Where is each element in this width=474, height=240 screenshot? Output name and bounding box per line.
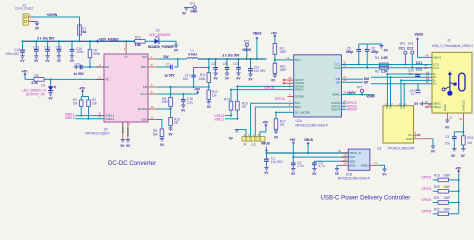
- svg-text:VBUS: VBUS: [304, 138, 313, 142]
- svg-text:VBUS: VBUS: [242, 48, 251, 52]
- J1 pin CC2 B5: [424, 66, 439, 70]
- capacitor C8 10u: [211, 58, 218, 81]
- svg-text:USB-C Power Delivery Controlle: USB-C Power Delivery Controller: [321, 195, 411, 202]
- wire VBUS rail to U1B: [266, 152, 348, 154]
- capacitor C5 390p CC1 filter: [346, 44, 361, 66]
- U2 pin FB: [143, 83, 157, 89]
- svg-text:TPD4E1U06DCKR: TPD4E1U06DCKR: [387, 146, 415, 150]
- svg-text:CC2: CC2: [416, 67, 423, 71]
- output bus VBUS rail top: [198, 58, 267, 60]
- capacitor C17 22u feedforward: [183, 67, 210, 89]
- svg-text:4.7uH: 4.7uH: [188, 53, 197, 57]
- wire PG line to U2: [50, 78, 104, 80]
- resistor R2 10k VSEL2 pullup: [87, 97, 98, 120]
- hier label VSEL2 right + wire: [214, 114, 231, 118]
- power label VBUS on output: [253, 32, 262, 60]
- svg-text:VCC: VCC: [141, 92, 148, 96]
- svg-text:MP2491CGQB-P: MP2491CGQB-P: [85, 131, 109, 135]
- U1A pin GPIO8 no-connect: [283, 79, 304, 85]
- wire J4 pin4 +5V: [260, 121, 269, 137]
- hier label GPIO3 pullup row: [422, 185, 459, 193]
- J1 pin VBUS A4 + power VBUS: [414, 33, 441, 60]
- wire J4 pin1 ground: [229, 130, 246, 141]
- capacitor C4 10n shield: [445, 132, 457, 158]
- svg-text:GND: GND: [406, 137, 414, 141]
- svg-text:+5V: +5V: [262, 121, 269, 125]
- hier label GPIO5 pullup row: [422, 208, 459, 216]
- svg-text:BST: BST: [141, 65, 147, 69]
- svg-text:GPIO4: GPIO4: [331, 108, 341, 112]
- svg-text:PGND: PGND: [126, 126, 130, 136]
- U2 pin PG: [96, 75, 110, 81]
- J1 GND pin bottom + ground: [443, 104, 453, 130]
- svg-text:VBUS: VBUS: [253, 32, 262, 36]
- svg-text:0R: 0R: [242, 105, 247, 109]
- svg-text:USB_C_Receptacle_USB2.0: USB_C_Receptacle_USB2.0: [432, 44, 473, 48]
- connector J4 I2C header: [242, 133, 265, 146]
- capacitor C9 10u: [223, 58, 230, 81]
- hier label VSEL2 + wire: [65, 116, 104, 120]
- wire VBUS_P stub: [341, 152, 343, 154]
- U1A pin GPIO2 + label: [331, 99, 357, 105]
- svg-text:D2-: D2-: [402, 104, 406, 109]
- U1A pin GPIO3 + label: [331, 102, 357, 108]
- svg-text:2.2u: 2.2u: [297, 164, 303, 168]
- resistor R1 10k VSEL1 pullup: [73, 97, 83, 117]
- svg-text:D3: D3: [156, 28, 160, 32]
- svg-text:J4: J4: [243, 142, 247, 146]
- resistor R12 11k feedback lower: [207, 87, 218, 109]
- svg-text:C13: C13: [33, 45, 39, 49]
- U2 pin ILIM: [141, 115, 157, 121]
- svg-text:R23: R23: [467, 136, 473, 140]
- svg-text:C10: C10: [233, 62, 239, 66]
- svg-text:A1: A1: [449, 115, 453, 119]
- resistor R3 DNP NTC upper: [273, 44, 286, 61]
- svg-text:5A: 5A: [82, 30, 87, 34]
- ESD array U3 TPD4E1U06DCKR: [377, 106, 415, 151]
- wire SW node: [157, 55, 187, 60]
- op-amp U1B MPS5311GRE-00A3-P power unit: [338, 149, 370, 181]
- wire D- row B6: [400, 79, 432, 81]
- U1B pin VBUS_P: [338, 149, 361, 155]
- power +5V into U1B VCC: [290, 138, 297, 158]
- connector J1 USB_C_Receptacle_USB2.0: [432, 38, 473, 113]
- svg-text:C15: C15: [56, 45, 62, 49]
- resistor R11 100k feedback upper: [198, 58, 210, 88]
- svg-text:GND: GND: [190, 10, 198, 14]
- U1B pin VCC: [341, 153, 356, 159]
- wire fuse to input bus: [79, 35, 81, 41]
- J1 SHIELD pin: [459, 99, 465, 122]
- svg-text:S1: S1: [459, 117, 463, 121]
- svg-text:1n: 1n: [409, 72, 413, 76]
- power +5V VSEL pullups: [79, 86, 88, 96]
- svg-text:CC1: CC1: [416, 61, 423, 65]
- svg-text:R22: R22: [434, 208, 440, 212]
- ground U1B GND: [335, 165, 340, 176]
- svg-text:D+: D+: [433, 82, 437, 86]
- test point TP4 CC2: [407, 42, 414, 69]
- svg-text:VBUS: VBUS: [261, 141, 270, 145]
- hier label GPIO4 pullup row: [422, 196, 459, 204]
- resistor R10 DNP NTC lower: [271, 60, 286, 83]
- power label +20VIN: [47, 13, 58, 17]
- U2 pin VSEL1: [98, 112, 114, 118]
- svg-text:0R: 0R: [174, 121, 179, 125]
- svg-text:B8: B8: [428, 103, 432, 107]
- U2 pin VSEL2: [98, 115, 114, 121]
- hier label VSEL1 right + wire: [214, 118, 237, 122]
- svg-text:CC2: CC2: [433, 66, 439, 70]
- svg-text:GPIO4: GPIO4: [347, 108, 357, 112]
- svg-text:GPIO6: GPIO6: [295, 95, 305, 99]
- U1A pin CC1 + wire to J1: [334, 60, 432, 66]
- svg-text:10k: 10k: [92, 101, 98, 105]
- svg-text:1n 50V: 1n 50V: [73, 72, 84, 76]
- svg-text:GND: GND: [443, 104, 447, 112]
- svg-text:VSEL2: VSEL2: [65, 116, 75, 120]
- power label VBUS on rail: [304, 138, 313, 154]
- U1A pin SCL + wire to J4: [251, 99, 301, 137]
- capacitor C11 47u 35V: [248, 58, 266, 82]
- wire D- row A6: [386, 73, 432, 75]
- svg-text:TP1: TP1: [189, 2, 195, 6]
- resistor R15 0R GPIO5-VSEL2: [236, 85, 248, 119]
- capacitor C15 10u: [56, 41, 62, 63]
- svg-text:DNP: DNP: [280, 68, 287, 72]
- svg-text:GPIO5: GPIO5: [265, 86, 275, 90]
- connector J3 Conn_01x02: [15, 3, 33, 25]
- U3 pin NC no-connect: [408, 131, 420, 137]
- svg-text:TP2: TP2: [244, 39, 250, 43]
- wire LED D3 to ground: [159, 41, 179, 52]
- U1A pin DM + wire + label: [336, 75, 370, 81]
- capacitor C18 2.2u VCC decoupling: [181, 94, 193, 113]
- LED D1 green: [41, 79, 56, 100]
- U2 pin SW: [142, 55, 157, 59]
- test point TP1 GND: [182, 2, 198, 15]
- svg-text:C8: C8: [211, 62, 215, 66]
- J1 pin D+ A7: [426, 74, 437, 80]
- U2 pin MODE: [138, 105, 157, 111]
- svg-text:EN: EN: [105, 65, 109, 69]
- U1A pin I2C_MODE + wire: [275, 108, 310, 114]
- inductor L1 4.7uH: [187, 49, 198, 59]
- U1A pin VDRV + wire: [332, 91, 374, 97]
- svg-text:100k: 100k: [198, 77, 205, 81]
- op-amp U1A MPS5311GRE-00A3-P controller unit: [294, 55, 342, 128]
- svg-text:2.2k: 2.2k: [31, 81, 37, 85]
- J1 pin SBU1 A8 grounded: [414, 100, 441, 106]
- svg-text:VBUS: VBUS: [433, 55, 441, 59]
- resistor R13 6.8k LED series: [135, 35, 155, 47]
- svg-text:D1: D1: [41, 83, 45, 87]
- svg-text:NTC: NTC: [295, 58, 302, 62]
- hier label VSEL1 + wire: [65, 112, 104, 116]
- svg-text:CC2: CC2: [407, 46, 414, 50]
- U2 pin IN top: [124, 41, 128, 58]
- U3 pins top to D lines: [385, 74, 407, 109]
- fuse F1 5A: [78, 25, 87, 35]
- USB-C plug glyph inside J1: [459, 73, 465, 91]
- USB logo inside J1: [442, 71, 457, 95]
- hier label GPIO2 pullup row: [422, 174, 459, 182]
- svg-text:+20VIN: +20VIN: [47, 13, 58, 17]
- svg-text:R14: R14: [224, 97, 230, 101]
- svg-text:1u 50V: 1u 50V: [164, 74, 175, 78]
- svg-text:11k: 11k: [212, 94, 217, 98]
- svg-text:SW: SW: [142, 55, 147, 59]
- svg-text:OUTPUT_OK: OUTPUT_OK: [26, 92, 46, 96]
- svg-text:4.7u: 4.7u: [318, 164, 324, 168]
- svg-text:100n: 100n: [76, 50, 83, 54]
- svg-text:2.2R: 2.2R: [381, 70, 388, 74]
- svg-text:+5V: +5V: [290, 138, 297, 142]
- svg-text:VDRV: VDRV: [366, 94, 376, 98]
- svg-text:DNP: DNP: [444, 208, 451, 212]
- svg-text:R19: R19: [434, 174, 440, 178]
- svg-text:GPIO1: GPIO1: [295, 88, 305, 92]
- svg-text:2.2R: 2.2R: [381, 56, 388, 60]
- capacitor C3 4.7u VDD: [312, 161, 348, 176]
- U2 pin EN: [96, 63, 109, 69]
- capacitor C2 2.2u: [291, 157, 304, 176]
- resistor R16 0R MODE strap: [168, 109, 180, 136]
- svg-text:DNP: DNP: [444, 185, 451, 189]
- U2 pins GND PGND bottom + grounds: [120, 122, 131, 148]
- capacitor C6 390p CC2 filter: [365, 44, 378, 69]
- svg-text:ILIM: ILIM: [141, 118, 147, 122]
- svg-text:2.2u: 2.2u: [187, 100, 193, 104]
- svg-text:100u 35V: 100u 35V: [6, 52, 21, 56]
- svg-text:VDRV: VDRV: [347, 91, 357, 95]
- svg-text:R20: R20: [434, 185, 440, 189]
- svg-text:B5: B5: [424, 66, 428, 70]
- svg-text:C4: C4: [445, 135, 449, 139]
- svg-text:D1-: D1-: [388, 104, 392, 109]
- resistor R7 300k enable pullup: [88, 40, 100, 67]
- power label +20V_FUSED: [96, 38, 120, 43]
- U1B pin GND: [337, 162, 357, 168]
- svg-text:FB: FB: [143, 85, 147, 89]
- U1A pin GPIO4 + label: [331, 105, 357, 111]
- svg-text:VSEL1: VSEL1: [214, 118, 224, 122]
- U1A pin GPIO7 no-connect: [283, 76, 304, 82]
- svg-text:DNP: DNP: [444, 196, 451, 200]
- power +5V NTC pullup: [271, 31, 278, 43]
- svg-text:C9: C9: [223, 62, 227, 66]
- svg-text:CC2: CC2: [334, 66, 340, 70]
- capacitor C19 1n 50V on EN: [73, 63, 84, 76]
- ground 0V at J3: [35, 23, 40, 30]
- J1 pin D- B6: [426, 77, 436, 83]
- svg-text:MPS5311GRE-00A3-P: MPS5311GRE-00A3-P: [338, 177, 370, 181]
- U1B pin VDD: [341, 157, 356, 163]
- svg-text:1M: 1M: [467, 141, 472, 145]
- input bus +20V_FUSED: [22, 40, 135, 42]
- svg-text:3 x 10u 50V: 3 x 10u 50V: [222, 53, 240, 57]
- svg-text:PG: PG: [105, 77, 110, 81]
- svg-text:47u 35V: 47u 35V: [254, 69, 267, 73]
- J1 pin CC1 A5: [424, 63, 439, 68]
- capacitor C13 10u: [33, 41, 39, 63]
- svg-text:R6: R6: [34, 74, 38, 78]
- resistor R14 0R GPIO1-VSEL1: [224, 89, 233, 117]
- capacitor C12 100u 35V bulk: [6, 41, 26, 63]
- svg-text:390p: 390p: [346, 50, 353, 54]
- svg-text:390p: 390p: [371, 50, 378, 54]
- svg-text:+20V_FUSED: +20V_FUSED: [99, 38, 120, 42]
- wire VCC line: [157, 93, 198, 95]
- resistor R9 DNP FB to MODE: [162, 86, 173, 109]
- capacitor C7 1u 50V bootstrap: [157, 59, 178, 78]
- capacitor C21 1n on D lines: [409, 84, 420, 96]
- resistor R5 2.2R CC2 series: [375, 66, 388, 73]
- U2 pin BST: [141, 63, 157, 69]
- svg-text:DNP: DNP: [280, 50, 287, 54]
- wire U1B VCC line: [293, 156, 348, 158]
- svg-text:SW: SW: [163, 55, 168, 59]
- U1A pin GPIO1 + wire + net label GPIO5: [231, 86, 304, 92]
- svg-text:A4: A4: [425, 54, 429, 58]
- svg-text:C7: C7: [166, 63, 170, 67]
- wire NTC line to U1A: [275, 59, 294, 61]
- svg-text:GPIO2: GPIO2: [422, 176, 432, 180]
- svg-text:SBU2: SBU2: [433, 105, 441, 109]
- svg-text:MODE: MODE: [138, 107, 147, 111]
- U2 pin VCC: [141, 90, 157, 96]
- svg-text:U1A: U1A: [296, 119, 303, 123]
- capacitor C16 100n: [70, 41, 84, 63]
- svg-text:56k: 56k: [153, 133, 159, 137]
- resistor R8 56k ILIM: [153, 120, 165, 147]
- svg-text:SHIELD: SHIELD: [462, 99, 466, 111]
- svg-text:300k: 300k: [93, 52, 100, 56]
- svg-text:I2C_MODE: I2C_MODE: [295, 110, 310, 114]
- U3 pin GND + ground: [406, 135, 436, 154]
- svg-text:VBUS: VBUS: [414, 33, 423, 37]
- svg-text:C14: C14: [44, 45, 50, 49]
- svg-text:GPIO6: GPIO6: [275, 97, 285, 101]
- J1 pin D+ B7: [426, 80, 437, 86]
- svg-text:GPIO5: GPIO5: [422, 210, 432, 214]
- LED D3 orange board power: [155, 28, 160, 44]
- svg-text:R13: R13: [135, 35, 141, 39]
- test point TP2 VBUS: [242, 39, 251, 60]
- svg-text:Conn_01x02: Conn_01x02: [15, 6, 33, 10]
- svg-text:B7: B7: [426, 80, 430, 84]
- U1A pin DP + wire + label: [336, 78, 369, 84]
- test point TP7 VDRV: [356, 86, 376, 99]
- svg-text:J1: J1: [447, 38, 451, 42]
- svg-text:LED_ORANGE: LED_ORANGE: [149, 33, 171, 37]
- wire J3 pin1 to fuse +20VIN: [32, 17, 80, 25]
- resistor R6 2.2k: [25, 74, 51, 85]
- U1A pin SDA + wire to J4: [255, 103, 300, 137]
- svg-text:MPS5311GRE-00A3-P: MPS5311GRE-00A3-P: [296, 123, 328, 127]
- svg-text:EPAD: EPAD: [361, 163, 370, 167]
- svg-text:GPIO4: GPIO4: [422, 198, 432, 202]
- svg-text:BOARD_POWER: BOARD_POWER: [148, 45, 174, 49]
- svg-text:10k: 10k: [73, 101, 79, 105]
- svg-text:6.8k: 6.8k: [135, 43, 141, 47]
- svg-text:VSEL2: VSEL2: [105, 117, 115, 121]
- svg-text:3 x 10u 50V: 3 x 10u 50V: [37, 36, 55, 40]
- J1 pin SBU2 B8 no-connect: [425, 103, 441, 109]
- J1 pin D- A6: [426, 70, 436, 76]
- svg-text:R5: R5: [375, 70, 379, 74]
- resistor R23 1M shield bleed: [461, 132, 474, 158]
- capacitor C1 10u 50V VBUS bulk: [264, 152, 284, 175]
- svg-text:GND: GND: [121, 126, 125, 133]
- U1A pin GPIO5 + wire: [237, 82, 304, 88]
- svg-text:DC-DC Converter: DC-DC Converter: [108, 160, 156, 167]
- svg-text:R4: R4: [375, 56, 379, 60]
- svg-text:U3: U3: [377, 146, 381, 150]
- capacitor C20 1n between D lines: [408, 69, 420, 77]
- U1A pin NTC: [286, 56, 301, 62]
- svg-text:0R: 0R: [280, 123, 285, 127]
- wire D+ row A7: [371, 76, 432, 78]
- svg-text:CC1: CC1: [399, 46, 406, 50]
- svg-text:10n: 10n: [445, 142, 451, 146]
- capacitor C10 10u: [233, 58, 241, 81]
- svg-text:VDRV: VDRV: [332, 93, 340, 97]
- svg-text:IN: IN: [125, 55, 128, 59]
- svg-text:+5V: +5V: [271, 31, 278, 35]
- svg-text:SDA: SDA: [295, 105, 301, 109]
- svg-text:22u: 22u: [183, 77, 189, 81]
- svg-text:10u 50V: 10u 50V: [271, 160, 284, 164]
- resistor R17 0R I2C mode strap: [274, 112, 286, 139]
- power +5V for PG pullup: [22, 70, 29, 80]
- wire CC filter ground rail: [359, 44, 389, 53]
- wire +5V pullup rail bottom right: [455, 166, 462, 214]
- op-amp U2 MP2491CGQB-P buck converter IC: [85, 54, 148, 135]
- power label VBUS at rail start: [261, 141, 270, 151]
- wire FB line: [157, 86, 209, 88]
- capacitor C14 10u: [44, 41, 50, 63]
- svg-text:DP: DP: [336, 80, 340, 84]
- U1B pin EPAD + ground: [361, 161, 388, 177]
- resistor R4 2.2R CC1 series: [375, 56, 388, 66]
- power +5V at VCC: [194, 88, 201, 94]
- U1A pin GPIO6 + label: [275, 93, 304, 102]
- svg-text:DNP: DNP: [162, 100, 169, 104]
- svg-text:DNP: DNP: [444, 174, 451, 178]
- wire MODE line: [157, 108, 172, 110]
- wire D+ row B7: [371, 83, 432, 85]
- U1A pin CC2 + wire to J1: [334, 64, 432, 70]
- wire EN line: [77, 66, 104, 68]
- svg-text:GND: GND: [349, 163, 357, 167]
- svg-text:GPIO3: GPIO3: [422, 187, 432, 191]
- wire J3 pin2 to ground: [32, 22, 38, 24]
- svg-text:R21: R21: [434, 196, 440, 200]
- wire shield to RC node: [454, 122, 464, 133]
- test point TP3 CC1: [399, 42, 407, 66]
- svg-text:1n: 1n: [411, 92, 415, 96]
